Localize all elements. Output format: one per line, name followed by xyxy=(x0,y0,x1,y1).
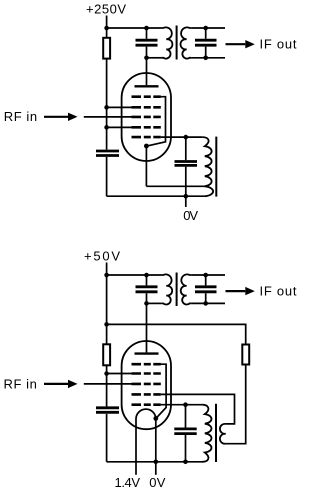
node HT junction xyxy=(104,26,109,31)
wire internal G5-to-cathode strap xyxy=(147,97,165,146)
wire to G2 bottom xyxy=(107,373,133,375)
node G2 junction xyxy=(104,105,109,110)
capacitor C8 (grid decoupling bottom) xyxy=(96,408,119,413)
wire left bus down to 0V rail xyxy=(106,157,108,196)
wire G1 to oscillator tuned circuit xyxy=(161,136,203,138)
capacitor C2 (secondary tuning) xyxy=(195,28,217,58)
capacitor C4 (screen decoupling) xyxy=(96,151,119,156)
wire secondary top stub xyxy=(191,27,225,29)
IF output arrow xyxy=(226,40,255,48)
svg-text:+50V: +50V xyxy=(84,249,120,264)
node C2 top xyxy=(203,26,208,31)
grid G5 (row 1) xyxy=(132,95,161,98)
wire left bus down to 0V rail bottom xyxy=(106,414,108,462)
wire anode lead xyxy=(146,58,148,85)
wire 0V stub xyxy=(185,196,187,207)
inductor L5 secondary of IF transformer 2 xyxy=(181,274,191,304)
wire cathode tap to coil xyxy=(146,185,205,187)
svg-text:IF out: IF out xyxy=(260,36,297,51)
inductor L3 oscillator coil xyxy=(202,137,213,196)
grid row 1 V2 xyxy=(132,363,161,366)
wire filament negative leg below rail xyxy=(155,462,157,475)
grid row 3 V2 xyxy=(132,383,161,386)
filament of V2 xyxy=(136,409,156,475)
svg-text:RF in: RF in xyxy=(4,109,37,124)
valve V1 envelope xyxy=(122,73,171,161)
wire bus above resistor xyxy=(106,28,108,38)
inductor L7 feedback winding xyxy=(220,424,226,444)
node C2 bottom xyxy=(203,56,208,61)
wire RF in to G3 bottom xyxy=(84,383,133,385)
wire HT lead from +50V xyxy=(106,263,108,276)
node HT junction bottom xyxy=(104,273,109,278)
wire screen bus below resistor xyxy=(106,59,108,150)
wire left bus +50V down xyxy=(106,275,108,344)
svg-text:1.4V: 1.4V xyxy=(115,475,141,490)
wire secondary bottom stub xyxy=(191,57,225,59)
svg-text:IF out: IF out xyxy=(260,283,297,298)
resistor R2 (left, grid feed) xyxy=(103,344,110,365)
svg-text:0V: 0V xyxy=(183,208,198,223)
oscillator coil core xyxy=(215,137,217,197)
grid row 4 V2 xyxy=(132,393,161,396)
wire to G2 xyxy=(107,106,133,108)
capacitor C1 (primary tuning) xyxy=(136,28,158,58)
wire 0V rail bottom xyxy=(107,461,203,463)
resistor R1 (screen dropper) xyxy=(103,38,110,59)
RF input arrow xyxy=(44,113,78,121)
wire anode lead bottom xyxy=(146,303,148,352)
grid G1 (row 5) xyxy=(132,136,161,139)
node C6 top xyxy=(203,273,208,278)
RF input arrow bottom xyxy=(44,380,78,388)
wire top rail to transformer (bottom circuit) xyxy=(107,274,162,276)
node C5 top xyxy=(144,273,149,278)
wire cathode lead xyxy=(145,146,147,186)
wire G1 to oscillator tuned circuit bottom xyxy=(161,404,202,406)
svg-text:+250V: +250V xyxy=(86,1,126,16)
inductor L6 oscillator coil bottom xyxy=(202,405,211,462)
node G1/C3 junction xyxy=(184,135,189,140)
capacitor C3 (oscillator tuning) xyxy=(175,137,198,196)
node C3/0V junction xyxy=(184,194,189,199)
node C6 bottom xyxy=(203,301,208,306)
wire feedback winding bottom to R3 xyxy=(226,365,246,444)
resistor R3 (right, oscillator anode feed) xyxy=(242,345,249,365)
node screen feed junction xyxy=(104,322,109,327)
wire RF in to G3 xyxy=(84,116,133,118)
oscillator coil core bottom xyxy=(215,404,217,462)
wire feed rail to right resistor xyxy=(107,324,246,344)
wire top rail to transformer xyxy=(107,27,162,29)
wire bottom rail cap to coil xyxy=(147,57,162,59)
capacitor C6 (secondary tuning bottom) xyxy=(195,275,217,303)
anode of V1 xyxy=(135,85,159,87)
cathode of V1 (dot) xyxy=(144,144,149,149)
grid row 2 V2 xyxy=(132,372,161,375)
anode of V2 xyxy=(135,352,159,354)
wire secondary top stub bottom xyxy=(191,274,225,276)
node G4 junction xyxy=(104,125,109,130)
transformer T1 core xyxy=(176,26,178,60)
capacitor C5 (primary tuning bottom) xyxy=(136,275,158,303)
wire to G4 xyxy=(107,126,133,128)
svg-text:RF in: RF in xyxy=(4,376,37,391)
inductor L4 primary of IF transformer 2 xyxy=(162,274,172,304)
grid G2 (row 4) xyxy=(132,126,161,129)
node G2 junction bottom xyxy=(104,371,109,376)
grid G4 (row 2) xyxy=(132,106,161,109)
node C1 top xyxy=(144,26,149,31)
grid G3 (row 3) xyxy=(132,116,161,119)
inductor L1 primary of IF transformer xyxy=(162,27,173,58)
transformer T2 core xyxy=(176,273,178,307)
node C1 bottom / anode junction xyxy=(144,56,149,61)
node filament strap junction xyxy=(153,416,158,421)
valve V2 envelope xyxy=(122,341,171,429)
node C7/0V junction bottom xyxy=(183,460,188,465)
capacitor C7 (oscillator tuning bottom) xyxy=(174,405,196,462)
wire bus below R2 xyxy=(106,365,108,406)
IF output arrow bottom xyxy=(226,287,255,295)
wire internal grid-to-filament strap V2 xyxy=(156,364,166,418)
svg-text:0V: 0V xyxy=(149,475,166,490)
grid row 5 V2 xyxy=(132,403,161,406)
node C5 bottom / anode junction xyxy=(144,301,149,306)
wire HT lead from +250V xyxy=(106,16,108,29)
wire bottom rail cap to coil (bottom IF) xyxy=(147,302,162,304)
wire secondary bottom stub bottom xyxy=(191,302,225,304)
node filament/0V junction xyxy=(154,460,159,465)
wire G2 to feedback winding xyxy=(161,394,235,424)
inductor L2 secondary of IF transformer xyxy=(180,27,191,58)
node G1/C7 junction bottom xyxy=(183,402,188,407)
wire 0V rail xyxy=(107,195,205,197)
